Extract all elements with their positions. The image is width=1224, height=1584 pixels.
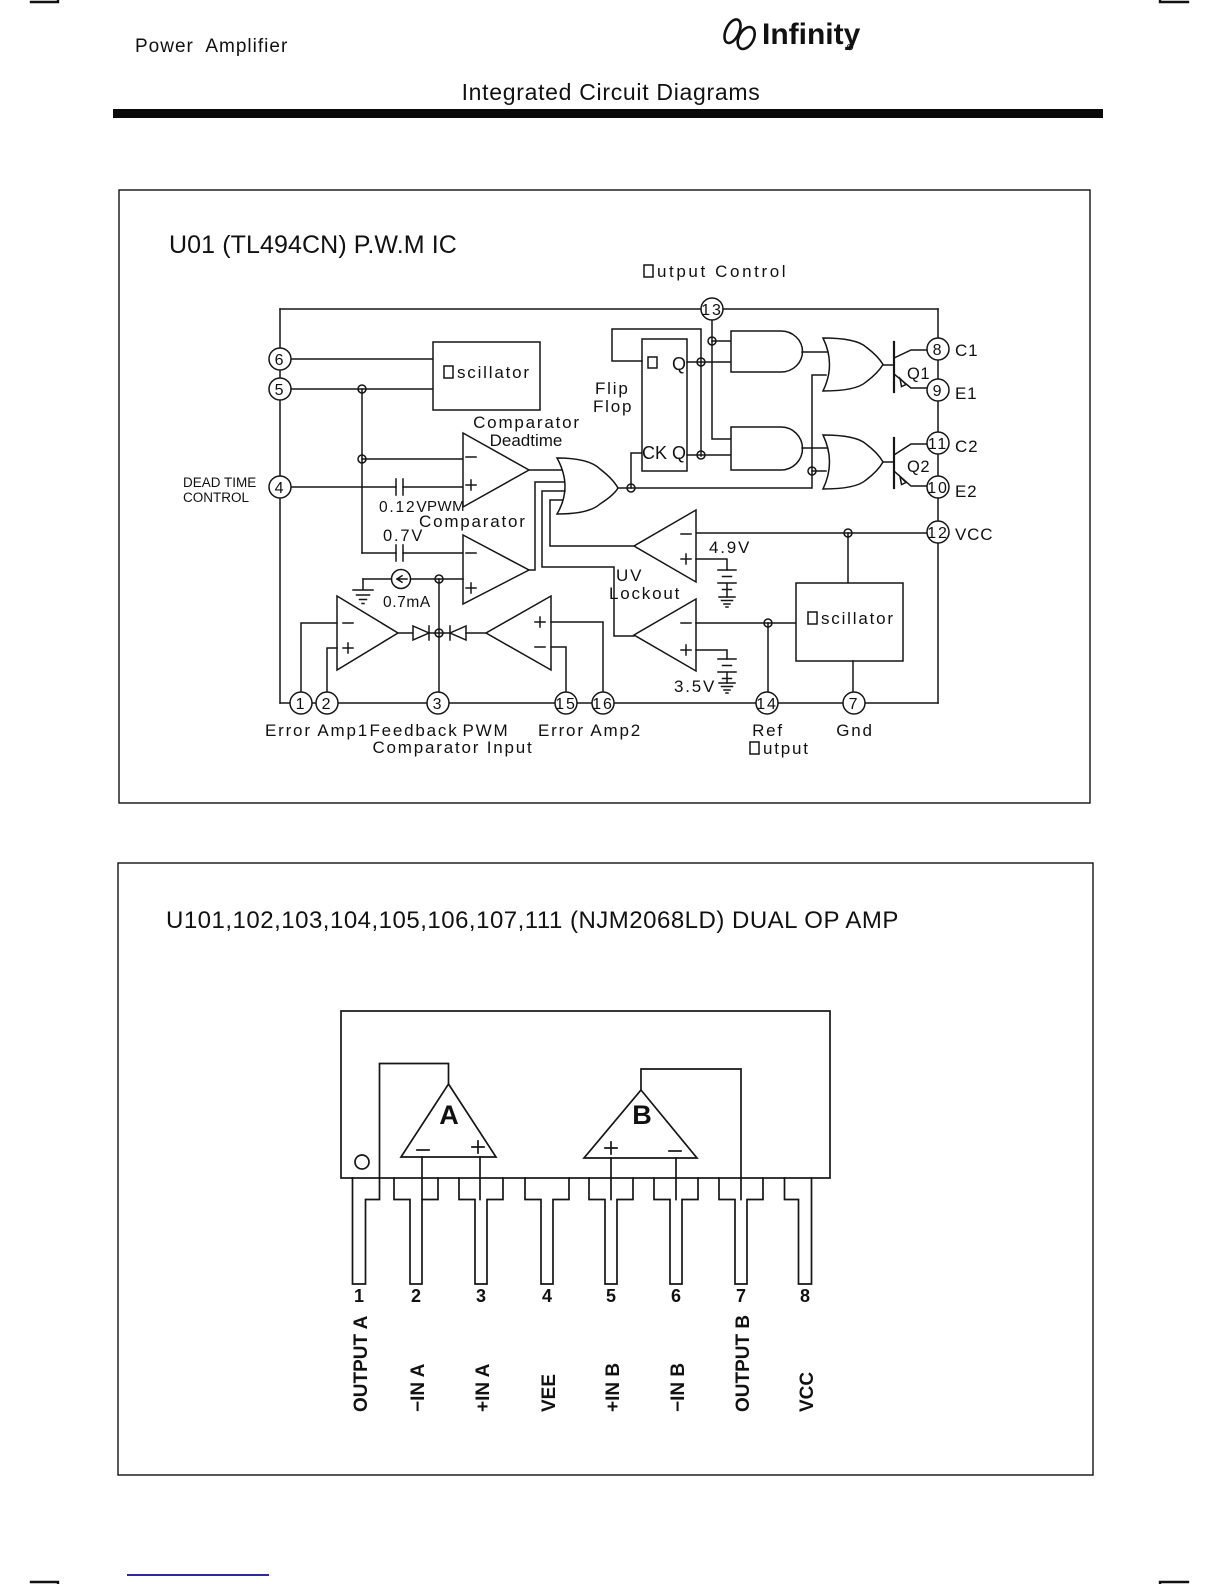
battery 4.9V [718,570,736,597]
pin 7 lead [719,1178,763,1284]
pin 3 [427,692,449,714]
wire: schematic outline right [937,309,939,703]
wire between diodes [429,632,450,634]
svg-text:UV: UV [616,566,643,585]
svg-text:Flop: Flop [593,397,633,416]
label Output (box O) [750,742,759,754]
svg-text:8: 8 [800,1286,810,1306]
ground battery1 [719,597,735,607]
crop mark bottom-right [1160,1582,1188,1584]
pin 14 [756,692,778,714]
uv lockout comparator 2 [634,599,696,671]
current source 0.7mA [392,570,411,589]
svg-text:Q: Q [672,443,688,463]
svg-text:C2: C2 [955,437,978,456]
title rule bar [113,109,1103,118]
svg-text:utput: utput [763,739,810,758]
node junction vcc to oscillator2 [844,529,852,537]
crop mark top-right [1160,0,1188,2]
op-amp A feedback wire [380,1064,449,1179]
wire error amp2 minus to pin15 [551,647,566,692]
pin 2 [316,692,338,714]
svg-text:6: 6 [275,352,286,369]
uv lockout comparator 1 [634,510,696,582]
svg-text:C1: C1 [955,341,978,360]
svg-text:2: 2 [411,1286,421,1306]
svg-text:4: 4 [275,480,286,497]
svg-text:15: 15 [555,696,576,713]
wire A minus to pin2 [421,1157,423,1200]
or gate 2 [823,435,883,489]
pin 1 [290,692,312,714]
wire error amp1 output [398,632,413,634]
wire B plus to pin5 [610,1158,612,1200]
svg-text:scillator: scillator [821,609,895,628]
node junction q [697,358,705,366]
svg-text:10: 10 [927,480,948,497]
wire uv1 plus to battery [696,559,727,570]
svg-text:12: 12 [927,525,948,542]
wire pin2 to error amp1 plus [327,648,337,692]
svg-text:11: 11 [928,436,948,453]
wire pwm comp output to or [529,482,564,570]
pin 3 lead [459,1178,503,1284]
svg-text:13: 13 [701,302,722,319]
pwm or gate [557,458,618,514]
node junction ck branch [627,484,635,492]
svg-text:E2: E2 [955,482,977,501]
svg-text:3.5V: 3.5V [674,677,716,696]
wire node branch down from pin5 wire [361,389,363,553]
oscillator U01 block [433,342,540,410]
flip flop box [642,339,687,471]
svg-text:CONTROL: CONTROL [183,490,249,505]
wire to error amp2 [466,632,486,634]
wire uv1 output to or [550,500,634,546]
diode D1 [413,626,429,640]
wire A plus to pin3 [479,1157,481,1200]
node junction feedback [435,629,443,637]
wire deadtime comp output to or [529,469,562,471]
ground battery2 [719,683,735,693]
error amp2 [486,596,551,670]
pin 5 lead [589,1178,633,1284]
wire to and1 input [712,340,731,342]
wire or gate output [618,375,826,488]
svg-text:1: 1 [296,696,307,713]
pin 15 [555,692,577,714]
wire and2 to or2 [802,447,827,449]
svg-text:+IN B: +IN B [603,1363,624,1412]
wire: schematic outline top [280,308,938,310]
wire pin3 vertical [438,579,440,692]
svg-text:B: B [632,1100,652,1130]
svg-text:+IN A: +IN A [473,1363,494,1412]
node junction or2 branch [808,467,816,475]
svg-text:2: 2 [322,696,333,713]
svg-text:OUTPUT B: OUTPUT B [733,1315,754,1412]
svg-text:utput Control: utput Control [657,262,788,281]
wire qbar output to and2 [687,454,731,456]
node junction deadtime branch [358,455,366,463]
pin1 index dot [355,1155,369,1169]
pin 8 [927,338,949,360]
svg-text:Power Amplifier: Power Amplifier [135,36,288,57]
wire 0.7V cap to pwm comparator minus [362,552,396,554]
wire pin6 to oscillator [280,358,433,360]
wire: schematic outline left [279,309,281,703]
Infinity logo swoosh [721,17,758,52]
transistor Q1 [893,342,895,392]
svg-text:Q1: Q1 [907,365,930,383]
svg-text:Integrated Circuit Diagrams: Integrated Circuit Diagrams [462,79,761,105]
svg-text:VEE: VEE [539,1374,560,1412]
svg-text:9: 9 [933,383,944,400]
transistor Q2 [893,438,895,488]
pin 12 [927,521,949,543]
pin 4 [269,476,291,498]
or gate 1 [823,338,883,391]
svg-text:A: A [439,1100,459,1130]
wire: schematic outline bottom [280,702,938,704]
node junction qbar [697,451,705,459]
and gate 2 [731,427,803,470]
svg-text:Error Amp1: Error Amp1 [265,721,369,740]
pin 7 [843,692,865,714]
wire pin1 to error amp1 minus [301,623,337,692]
FRAME 1: TL494 diagram [119,190,1090,803]
svg-text:1: 1 [354,1286,364,1306]
svg-text:5: 5 [606,1286,616,1306]
svg-text:−IN B: −IN B [668,1363,689,1412]
FRAME 2: dual op amp [118,863,1093,1475]
op-amp B feedback wire [641,1069,741,1200]
svg-text:Comparator: Comparator [473,413,581,432]
svg-text:Comparator Input: Comparator Input [372,738,533,757]
svg-text:Q2: Q2 [907,458,930,476]
svg-text:7: 7 [849,696,860,713]
wire pin13 down [712,320,731,439]
pin 1 lead [353,1178,380,1284]
pin 6 [269,348,291,370]
error amp1 [337,596,398,670]
wire uv2 output to or [542,491,634,636]
svg-text:Q: Q [672,354,688,374]
svg-text:6: 6 [671,1286,681,1306]
pin 10 [927,476,949,498]
wire B minus to pin6 [675,1158,677,1200]
capacitor 0.12V [395,479,397,495]
svg-text:0.7mA: 0.7mA [383,594,431,611]
wire to deadtime comparator minus [362,458,463,460]
node junction current source / pin3 [435,575,443,583]
svg-text:VCC: VCC [797,1372,818,1412]
svg-text:3: 3 [433,696,444,713]
DIP package body U101 [341,1011,830,1178]
comparator deadtime U01 [463,433,529,507]
svg-text:CK: CK [642,443,667,463]
svg-text:14: 14 [756,696,777,713]
pin 4 lead [525,1178,569,1284]
svg-text:E1: E1 [955,384,977,403]
wire to or2 lower input [812,470,826,472]
wire oscillator2 to pin7 [852,661,854,692]
wire uv2 minus to oscillator2 [696,622,796,624]
battery 3.5V [718,659,736,683]
wire pin14 vertical [767,623,769,692]
pin 5 [269,378,291,400]
svg-text:Gnd: Gnd [836,721,874,740]
svg-text:16: 16 [592,696,613,713]
svg-text:Infinity: Infinity [762,18,861,51]
wire ck input [631,453,642,488]
wire or1 output [883,364,894,366]
svg-text:3: 3 [476,1286,486,1306]
node junction on pin5 wire [358,385,366,393]
oscillator2 block [796,583,903,661]
svg-text:4: 4 [542,1286,552,1306]
pin 9 [927,379,949,401]
wire q output to and1 [687,361,731,363]
pin 16 [592,692,614,714]
wire and1 to or1 [802,351,827,353]
wire uv2 plus to battery [696,650,727,659]
svg-text:5: 5 [275,382,286,399]
pin 2 lead [394,1178,438,1284]
crop mark bottom-left [31,1582,58,1584]
wire error amp2 plus to pin16 [551,622,603,692]
wire pin5 to oscillator [280,388,433,390]
svg-text:0.7V: 0.7V [383,527,424,545]
diode D2 [450,626,466,640]
pin 6 lead [654,1178,698,1284]
pin 11 [927,432,949,454]
crop mark top-left [31,0,58,2]
svg-text:Ref: Ref [752,721,784,740]
svg-text:Error Amp2: Error Amp2 [538,721,642,740]
pin 13 [701,298,723,320]
wire or2 output [883,461,894,463]
svg-text:7: 7 [736,1286,746,1306]
svg-text:−IN A: −IN A [408,1363,429,1412]
ground at current source [353,579,373,604]
pwm comparator U01 [463,535,529,604]
svg-text:Flip: Flip [595,379,630,398]
svg-text:4.9V: 4.9V [709,538,751,557]
svg-text:OUTPUT A: OUTPUT A [351,1315,372,1412]
node junction ref output [764,619,772,627]
op-amp B [584,1090,697,1158]
capacitor 0.7V [395,545,397,561]
pin 8 lead [785,1178,812,1284]
svg-text:Lockout: Lockout [609,584,681,603]
wire D loop [612,329,701,456]
svg-text:VCC: VCC [955,525,993,544]
and gate 1 [731,331,803,372]
svg-text:Deadtime: Deadtime [490,431,563,450]
op-amp A [401,1084,496,1157]
bottom blue line [127,1574,269,1576]
svg-text:U01 (TL494CN) P.W.M IC: U01 (TL494CN) P.W.M IC [169,231,457,259]
wire pin4 dead time control [280,486,396,488]
wire pin12 vcc to uv1 [696,532,927,534]
label output control [644,265,653,277]
svg-text:Comparator: Comparator [419,512,527,531]
svg-text:DEAD TIME: DEAD TIME [183,475,256,490]
svg-text:8: 8 [933,342,944,359]
svg-text:scillator: scillator [457,363,531,382]
svg-text:U101,102,103,104,105,106,107,1: U101,102,103,104,105,106,107,111 (NJM206… [166,907,899,934]
node junction output control to and1 [708,337,716,345]
